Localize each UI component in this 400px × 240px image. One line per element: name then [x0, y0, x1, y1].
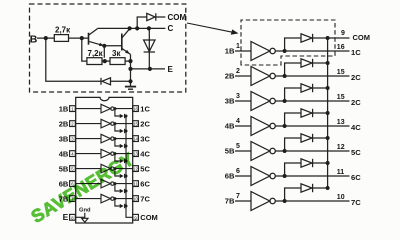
svg-text:10: 10 — [337, 194, 345, 201]
svg-text:5B: 5B — [225, 146, 235, 155]
svg-text:1B: 1B — [59, 104, 69, 113]
svg-text:COM: COM — [353, 33, 371, 42]
svg-text:15: 15 — [337, 94, 345, 101]
svg-text:2B: 2B — [59, 119, 69, 128]
svg-text:9: 9 — [341, 30, 345, 37]
svg-text:2C: 2C — [351, 98, 361, 107]
svg-text:14: 14 — [133, 137, 138, 142]
svg-text:B: B — [30, 33, 38, 45]
svg-text:1B: 1B — [225, 46, 235, 55]
svg-text:COM: COM — [140, 213, 158, 222]
svg-text:7,2к: 7,2к — [88, 49, 104, 58]
svg-text:4C: 4C — [140, 149, 150, 158]
svg-text:E: E — [168, 65, 174, 74]
svg-text:13: 13 — [133, 152, 138, 157]
svg-text:7C: 7C — [351, 198, 361, 207]
svg-text:3к: 3к — [112, 49, 121, 58]
svg-text:5C: 5C — [140, 164, 150, 173]
svg-text:6C: 6C — [351, 173, 361, 182]
svg-text:2: 2 — [236, 68, 240, 75]
svg-text:1C: 1C — [140, 104, 150, 113]
svg-text:4B: 4B — [59, 149, 69, 158]
svg-text:Gnd: Gnd — [79, 207, 91, 213]
svg-text:6: 6 — [236, 168, 240, 175]
svg-text:7B: 7B — [225, 196, 235, 205]
svg-text:5C: 5C — [351, 148, 361, 157]
svg-text:C: C — [168, 24, 174, 33]
svg-text:2C: 2C — [140, 119, 150, 128]
svg-text:2C: 2C — [351, 73, 361, 82]
svg-text:5: 5 — [236, 143, 240, 150]
svg-text:4: 4 — [236, 118, 240, 125]
svg-text:13: 13 — [337, 119, 345, 126]
svg-text:2,7к: 2,7к — [55, 26, 71, 35]
svg-text:1C: 1C — [351, 48, 361, 57]
svg-text:7C: 7C — [140, 194, 150, 203]
svg-text:3C: 3C — [140, 134, 150, 143]
svg-text:15: 15 — [337, 69, 345, 76]
svg-text:1: 1 — [236, 43, 240, 50]
svg-text:15: 15 — [133, 122, 138, 127]
svg-text:E: E — [63, 212, 69, 222]
svg-text:12: 12 — [337, 144, 345, 151]
svg-text:10: 10 — [133, 197, 138, 202]
svg-text:3B: 3B — [59, 134, 69, 143]
svg-text:3: 3 — [236, 93, 240, 100]
svg-text:2B: 2B — [225, 71, 235, 80]
svg-text:7: 7 — [236, 193, 240, 200]
svg-text:6C: 6C — [140, 179, 150, 188]
svg-text:4B: 4B — [225, 121, 235, 130]
svg-text:5B: 5B — [59, 164, 69, 173]
svg-text:11: 11 — [133, 182, 138, 187]
svg-text:COM: COM — [168, 13, 187, 22]
svg-text:4C: 4C — [351, 123, 361, 132]
svg-text:6B: 6B — [225, 171, 235, 180]
svg-text:16: 16 — [133, 107, 138, 112]
svg-text:11: 11 — [337, 169, 345, 176]
svg-text:3B: 3B — [225, 96, 235, 105]
svg-text:16: 16 — [337, 44, 345, 51]
